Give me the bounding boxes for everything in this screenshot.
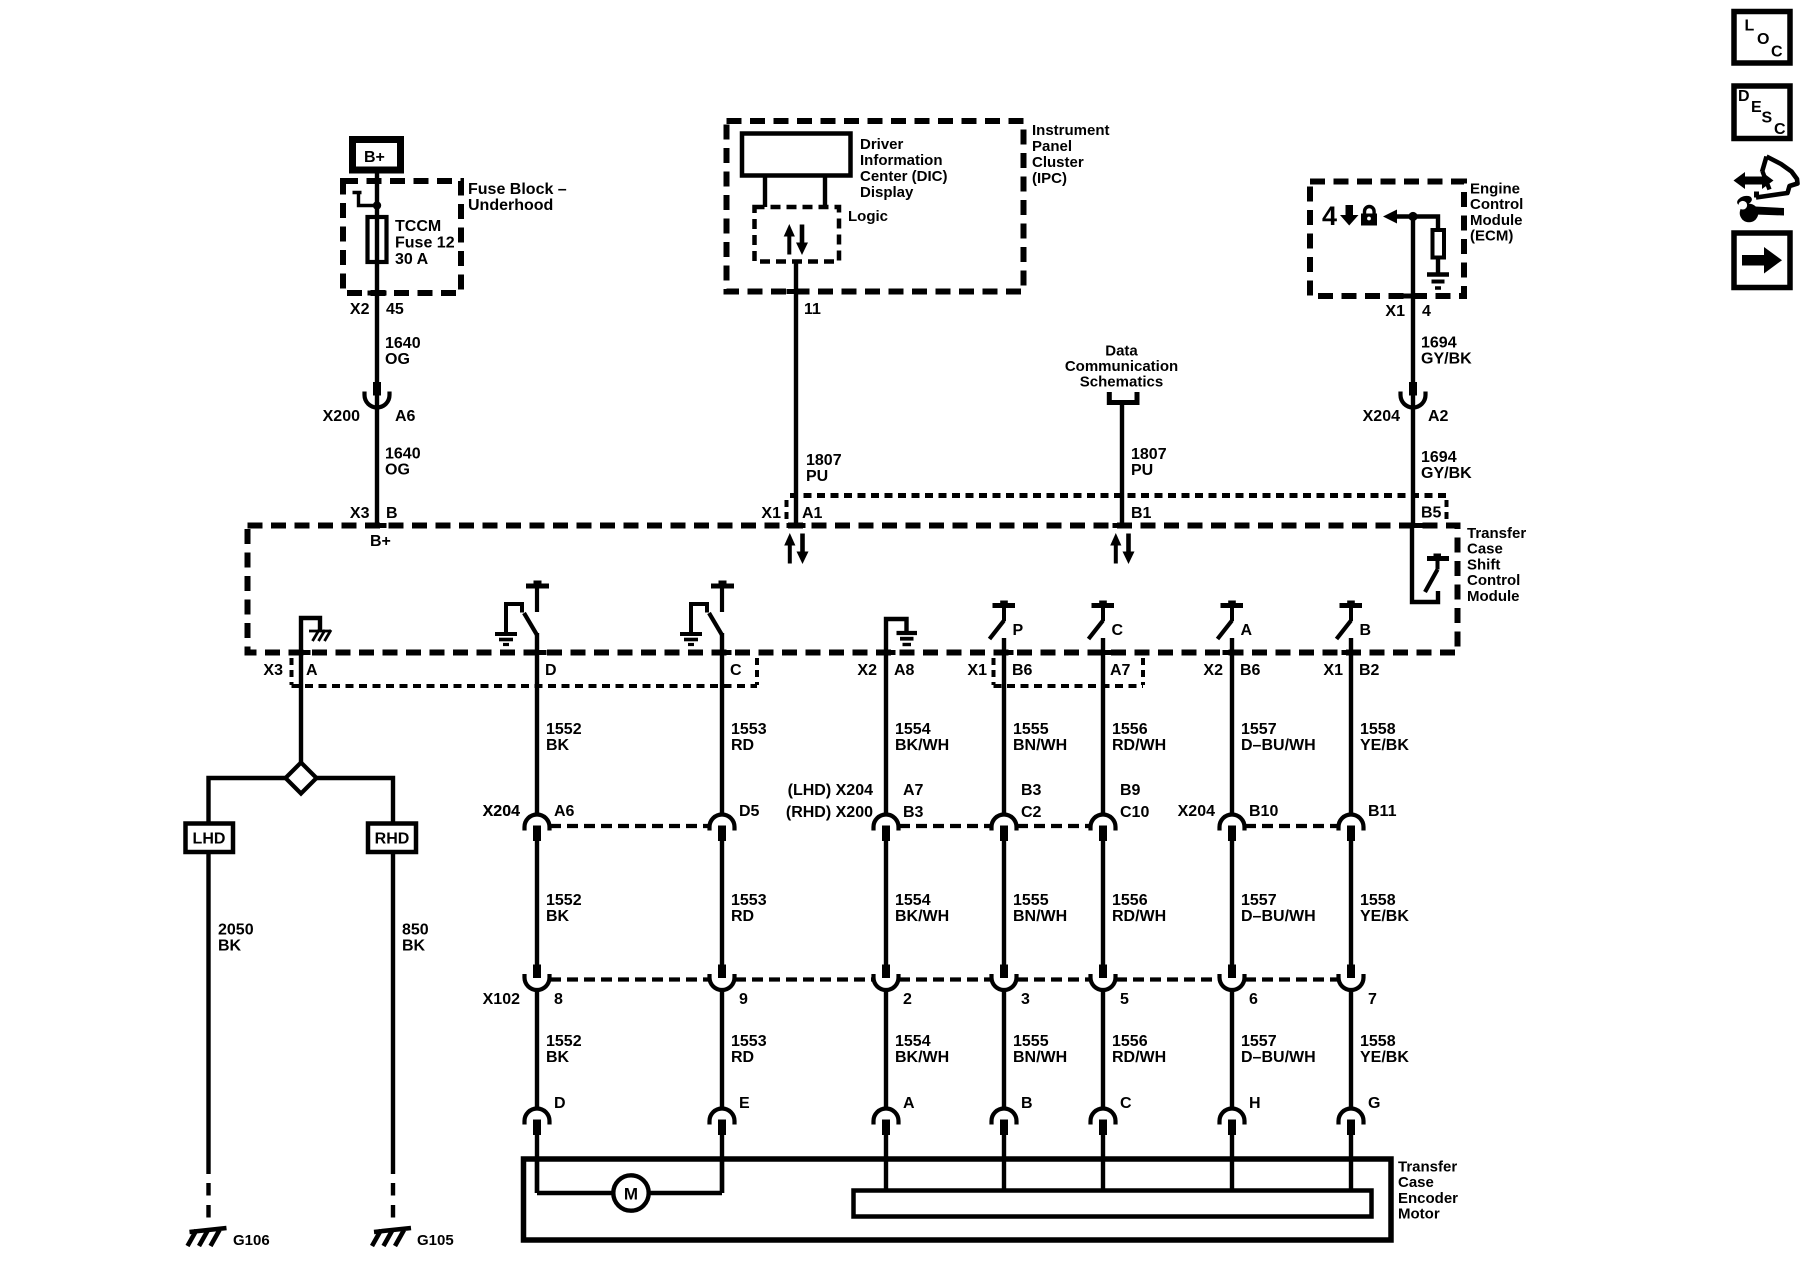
svg-text:B9: B9 <box>1120 782 1141 799</box>
svg-text:A2: A2 <box>1428 408 1449 425</box>
svg-text:X2: X2 <box>857 662 877 679</box>
ground arrow pin A <box>301 618 320 653</box>
wire DIC to logic right leg <box>823 176 827 208</box>
svg-text:A7: A7 <box>903 782 924 799</box>
svg-text:Schematics: Schematics <box>1080 374 1163 391</box>
wire 1553 segment 3 <box>720 990 724 1109</box>
svg-text:O: O <box>1757 31 1769 48</box>
svg-text:B: B <box>1360 622 1372 639</box>
connector row X102 wire 1557 <box>1228 965 1236 979</box>
svg-text:Display: Display <box>860 184 914 201</box>
svg-text:G: G <box>1368 1095 1380 1112</box>
instrument panel cluster IPC box <box>727 121 1024 292</box>
wire DIC to logic left leg <box>763 176 767 208</box>
wire 1554 segment 2 <box>884 841 888 965</box>
svg-text:X204: X204 <box>1363 408 1400 425</box>
svg-text:X2: X2 <box>350 301 370 318</box>
switch driver <box>526 584 549 589</box>
svg-text:4: 4 <box>1322 201 1337 231</box>
connector row X102 wire 1553 <box>718 965 726 979</box>
motor M <box>613 1175 648 1210</box>
svg-text:RD/WH: RD/WH <box>1112 1049 1166 1066</box>
svg-text:1556: 1556 <box>1112 1033 1148 1050</box>
svg-text:Case: Case <box>1398 1174 1434 1191</box>
svg-text:X200: X200 <box>323 408 360 425</box>
svg-text:A: A <box>306 662 318 679</box>
svg-text:RHD: RHD <box>375 831 410 848</box>
node B+ battery feed <box>353 140 401 171</box>
svg-text:D: D <box>554 1095 566 1112</box>
logic up/down arrows <box>784 224 795 237</box>
switch A <box>1221 603 1244 608</box>
wire 1553 segment 4 <box>720 1135 724 1193</box>
svg-text:S: S <box>1762 110 1773 127</box>
svg-text:2: 2 <box>903 991 912 1008</box>
icon wrench <box>1740 204 1759 223</box>
svg-text:X1: X1 <box>1323 662 1343 679</box>
svg-text:B: B <box>1021 1095 1033 1112</box>
connector X200 A6 <box>373 382 381 396</box>
resistor <box>1433 230 1445 258</box>
left arrow to junction <box>1383 210 1397 224</box>
junction dot <box>1408 212 1417 221</box>
wire 1558 segment 3 <box>1349 990 1353 1109</box>
svg-text:C: C <box>1120 1095 1132 1112</box>
connector row X204 wire 1554 <box>874 814 899 830</box>
wire 2050 BK <box>206 852 210 1174</box>
connector row X204 wire 1557 <box>1220 814 1245 830</box>
svg-text:GY/BK: GY/BK <box>1421 465 1472 482</box>
connector row X204 wire 1552 <box>525 814 550 830</box>
wire 1557 segment 3 <box>1230 990 1234 1109</box>
svg-text:B3: B3 <box>1021 782 1042 799</box>
wire 1554 segment 4 <box>884 1135 888 1191</box>
svg-text:Control: Control <box>1470 196 1523 213</box>
svg-text:1807: 1807 <box>806 452 842 469</box>
svg-text:X204: X204 <box>483 803 520 820</box>
fuse TCCM Fuse 12 30A <box>368 217 387 262</box>
svg-text:Motor: Motor <box>1398 1206 1440 1223</box>
svg-text:YE/BK: YE/BK <box>1360 1049 1409 1066</box>
pin ticks bottom edge <box>292 650 311 655</box>
svg-text:1552: 1552 <box>546 721 582 738</box>
svg-text:1694: 1694 <box>1421 335 1457 352</box>
svg-text:850: 850 <box>402 922 429 939</box>
wire 1556 segment 2 <box>1101 841 1105 965</box>
wire 1557 segment 4 <box>1230 1135 1234 1191</box>
connector row X204 wire 1556 <box>1091 814 1116 830</box>
wire B+ to fuse <box>375 173 379 526</box>
svg-text:X1: X1 <box>761 505 781 522</box>
svg-text:X2: X2 <box>1203 662 1223 679</box>
svg-text:X3: X3 <box>350 505 370 522</box>
svg-text:OG: OG <box>385 462 410 479</box>
dotted serial data line <box>790 493 1446 498</box>
fuse clip <box>353 193 378 206</box>
wire 1558 segment 4 <box>1349 1135 1353 1191</box>
wire 1556 segment 4 <box>1101 1135 1105 1191</box>
svg-text:B10: B10 <box>1249 803 1278 820</box>
transfer case shift control module box <box>248 526 1458 653</box>
diamond splice <box>286 763 317 794</box>
svg-text:E: E <box>1751 99 1762 116</box>
wire 1555 segment 1 <box>1002 653 1006 815</box>
ground A8 <box>886 619 907 653</box>
svg-text:BK/WH: BK/WH <box>895 737 949 754</box>
bracket <box>1109 392 1137 403</box>
ground symbol <box>190 1228 227 1232</box>
icon DESC box <box>1734 86 1790 139</box>
svg-text:6: 6 <box>1249 991 1258 1008</box>
LHD box <box>186 824 234 853</box>
svg-text:11: 11 <box>804 301 821 318</box>
svg-text:RD/WH: RD/WH <box>1112 737 1166 754</box>
svg-text:Module: Module <box>1470 212 1523 229</box>
svg-text:BK: BK <box>546 1049 570 1066</box>
pin X2/45 tick <box>368 291 387 296</box>
svg-text:1553: 1553 <box>731 1033 767 1050</box>
switch C <box>1092 603 1115 608</box>
svg-text:D–BU/WH: D–BU/WH <box>1241 908 1316 925</box>
svg-text:E: E <box>739 1095 750 1112</box>
wire to pullup resistor <box>1413 217 1438 231</box>
svg-text:1552: 1552 <box>546 892 582 909</box>
svg-text:1694: 1694 <box>1421 449 1457 466</box>
svg-text:PU: PU <box>806 468 828 485</box>
svg-text:9: 9 <box>739 991 748 1008</box>
switch driver <box>711 584 734 589</box>
svg-text:X1: X1 <box>1385 303 1405 320</box>
svg-text:2050: 2050 <box>218 922 254 939</box>
svg-text:D5: D5 <box>739 803 760 820</box>
svg-text:1557: 1557 <box>1241 1033 1277 1050</box>
wire 1558 segment 2 <box>1349 841 1353 965</box>
svg-text:B5: B5 <box>1421 505 1442 522</box>
svg-text:Control: Control <box>1467 572 1520 589</box>
svg-text:BN/WH: BN/WH <box>1013 1049 1067 1066</box>
svg-text:LHD: LHD <box>193 831 226 848</box>
wire to RHD <box>317 778 394 824</box>
icon LOC box <box>1734 12 1790 64</box>
svg-text:D: D <box>1738 88 1750 105</box>
wire ECM pin 4 <box>1411 217 1415 526</box>
connector row X102 wire 1558 <box>1347 965 1355 979</box>
connector link dashes X102 row <box>550 977 709 981</box>
wire 1552 segment 2 <box>535 841 539 965</box>
connector sub-box X3 <box>292 684 758 688</box>
svg-text:1555: 1555 <box>1013 892 1049 909</box>
svg-text:1557: 1557 <box>1241 721 1277 738</box>
svg-text:1553: 1553 <box>731 721 767 738</box>
svg-text:Transfer: Transfer <box>1467 525 1526 542</box>
switch P <box>993 603 1016 608</box>
wire 1807 PU right <box>1120 405 1124 526</box>
svg-text:3: 3 <box>1021 991 1030 1008</box>
svg-text:Communication: Communication <box>1065 358 1178 375</box>
svg-text:H: H <box>1249 1095 1261 1112</box>
svg-text:1556: 1556 <box>1112 892 1148 909</box>
wire 850 BK <box>391 852 395 1174</box>
svg-text:BN/WH: BN/WH <box>1013 737 1067 754</box>
svg-text:Information: Information <box>860 152 943 169</box>
wire 1556 segment 1 <box>1101 653 1105 815</box>
svg-text:C10: C10 <box>1120 804 1149 821</box>
svg-text:BK/WH: BK/WH <box>895 1049 949 1066</box>
svg-text:Module: Module <box>1467 588 1520 605</box>
wire resistor to ground <box>1436 258 1440 274</box>
svg-text:1807: 1807 <box>1131 446 1167 463</box>
svg-text:1557: 1557 <box>1241 892 1277 909</box>
svg-text:BK: BK <box>402 938 426 955</box>
svg-text:B+: B+ <box>364 149 385 166</box>
wire pin A down <box>299 653 303 764</box>
wire 1553 segment 1 <box>720 653 724 815</box>
svg-text:Cluster: Cluster <box>1032 154 1084 171</box>
connector row X204 wire 1555 <box>992 814 1017 830</box>
svg-text:BK/WH: BK/WH <box>895 908 949 925</box>
serial data arrows A1 <box>784 533 795 546</box>
svg-text:Driver: Driver <box>860 136 904 153</box>
svg-text:BK: BK <box>546 908 570 925</box>
wire 1552 segment 1 <box>535 653 539 815</box>
svg-text:C: C <box>1771 44 1783 61</box>
svg-text:BK: BK <box>218 938 242 955</box>
encoder bar <box>854 1191 1372 1217</box>
svg-text:G106: G106 <box>233 1232 270 1249</box>
svg-text:Transfer: Transfer <box>1398 1159 1457 1176</box>
svg-text:Data: Data <box>1105 343 1138 360</box>
svg-text:(RHD) X200: (RHD) X200 <box>786 804 873 821</box>
B5 switch inside module <box>1412 528 1438 602</box>
wire 1552 segment 3 <box>535 990 539 1109</box>
svg-text:B6: B6 <box>1012 662 1033 679</box>
svg-text:TCCM: TCCM <box>395 218 441 235</box>
ground symbol <box>374 1228 411 1232</box>
svg-text:A6: A6 <box>395 408 416 425</box>
svg-text:RD/WH: RD/WH <box>1112 908 1166 925</box>
svg-text:Fuse Block –: Fuse Block – <box>468 181 567 198</box>
svg-text:A: A <box>1241 622 1253 639</box>
svg-text:D: D <box>545 662 557 679</box>
svg-text:Logic: Logic <box>848 208 888 225</box>
RHD box <box>368 824 416 853</box>
icon data link connector <box>1734 172 1774 189</box>
svg-text:(ECM): (ECM) <box>1470 228 1513 245</box>
svg-text:C: C <box>1112 622 1124 639</box>
wire 1554 segment 1 <box>884 653 888 815</box>
connector row X204 wire 1558 <box>1339 814 1364 830</box>
svg-text:1555: 1555 <box>1013 1033 1049 1050</box>
icon next arrow box <box>1734 233 1790 288</box>
svg-text:G105: G105 <box>417 1232 454 1249</box>
transfer case encoder motor box <box>524 1159 1392 1240</box>
wire 1555 segment 2 <box>1002 841 1006 965</box>
svg-text:1556: 1556 <box>1112 721 1148 738</box>
wire 1558 segment 1 <box>1349 653 1353 815</box>
svg-text:M: M <box>624 1185 638 1204</box>
svg-text:L: L <box>1745 18 1755 35</box>
svg-text:A6: A6 <box>554 803 575 820</box>
svg-text:Underhood: Underhood <box>468 197 553 214</box>
svg-text:A7: A7 <box>1110 662 1131 679</box>
connector link dashes X204 row <box>550 824 709 828</box>
svg-text:4: 4 <box>1422 303 1431 320</box>
svg-text:30 A: 30 A <box>395 251 429 268</box>
logic box <box>755 207 840 262</box>
svg-text:X102: X102 <box>483 991 520 1008</box>
svg-text:X204: X204 <box>1178 803 1215 820</box>
svg-text:Case: Case <box>1467 541 1503 558</box>
svg-text:A: A <box>903 1095 915 1112</box>
svg-text:Instrument: Instrument <box>1032 122 1110 139</box>
wire 1555 segment 3 <box>1002 990 1006 1109</box>
connector X204 A2 <box>1409 382 1417 396</box>
connector row X102 wire 1552 <box>533 965 541 979</box>
ground in ECM <box>1427 272 1449 276</box>
fuse block underhood box <box>343 181 461 293</box>
svg-text:(LHD) X204: (LHD) X204 <box>788 782 873 799</box>
svg-text:GY/BK: GY/BK <box>1421 351 1472 368</box>
wire 1555 segment 4 <box>1002 1135 1006 1191</box>
svg-text:1558: 1558 <box>1360 1033 1396 1050</box>
svg-text:B+: B+ <box>370 533 391 550</box>
motor wire D-E <box>535 1159 539 1193</box>
svg-text:1555: 1555 <box>1013 721 1049 738</box>
svg-text:B11: B11 <box>1368 803 1397 820</box>
svg-text:1552: 1552 <box>546 1033 582 1050</box>
svg-text:Shift: Shift <box>1467 556 1500 573</box>
svg-text:D–BU/WH: D–BU/WH <box>1241 1049 1316 1066</box>
svg-text:45: 45 <box>386 301 404 318</box>
wire 1552 segment 4 <box>535 1135 539 1193</box>
svg-text:YE/BK: YE/BK <box>1360 908 1409 925</box>
connector sub-box X1 <box>994 684 1144 688</box>
connector row X204 wire 1553 <box>710 814 735 830</box>
switch B <box>1340 603 1363 608</box>
svg-text:1640: 1640 <box>385 446 421 463</box>
svg-text:X3: X3 <box>263 662 283 679</box>
svg-text:B3: B3 <box>903 804 924 821</box>
svg-text:RD: RD <box>731 1049 754 1066</box>
connector row X102 wire 1555 <box>1000 965 1008 979</box>
svg-text:(IPC): (IPC) <box>1032 170 1067 187</box>
svg-text:P: P <box>1013 622 1024 639</box>
connector row X102 wire 1554 <box>882 965 890 979</box>
svg-text:1558: 1558 <box>1360 721 1396 738</box>
svg-text:BN/WH: BN/WH <box>1013 908 1067 925</box>
svg-text:C2: C2 <box>1021 804 1042 821</box>
wire 1557 segment 1 <box>1230 653 1234 815</box>
svg-text:X1: X1 <box>967 662 987 679</box>
svg-text:8: 8 <box>554 991 563 1008</box>
wire 1553 segment 2 <box>720 841 724 965</box>
serial data arrows B1 <box>1110 533 1121 546</box>
svg-text:D–BU/WH: D–BU/WH <box>1241 737 1316 754</box>
connector row X102 wire 1556 <box>1099 965 1107 979</box>
svg-text:B: B <box>386 505 398 522</box>
svg-text:YE/BK: YE/BK <box>1360 737 1409 754</box>
wire 1556 segment 3 <box>1101 990 1105 1109</box>
wire 1557 segment 2 <box>1230 841 1234 965</box>
svg-text:C: C <box>730 662 742 679</box>
svg-text:BK: BK <box>546 737 570 754</box>
svg-text:1553: 1553 <box>731 892 767 909</box>
wire to LHD <box>209 778 286 824</box>
svg-text:5: 5 <box>1120 991 1129 1008</box>
wire 1554 segment 3 <box>884 990 888 1109</box>
svg-text:C: C <box>1774 121 1786 138</box>
svg-text:Engine: Engine <box>1470 181 1520 198</box>
padlock <box>1361 214 1377 226</box>
svg-text:RD: RD <box>731 908 754 925</box>
engine control module ECM box <box>1310 182 1464 297</box>
svg-text:Panel: Panel <box>1032 138 1072 155</box>
svg-text:PU: PU <box>1131 462 1153 479</box>
svg-text:RD: RD <box>731 737 754 754</box>
svg-text:B2: B2 <box>1359 662 1380 679</box>
dashed tail G105 <box>391 1183 395 1221</box>
svg-text:1554: 1554 <box>895 892 931 909</box>
svg-text:B6: B6 <box>1240 662 1261 679</box>
svg-text:7: 7 <box>1368 991 1377 1008</box>
svg-text:Center (DIC): Center (DIC) <box>860 168 948 185</box>
svg-text:1554: 1554 <box>895 1033 931 1050</box>
svg-text:A8: A8 <box>894 662 915 679</box>
svg-text:Fuse 12: Fuse 12 <box>395 235 455 252</box>
svg-text:1640: 1640 <box>385 335 421 352</box>
dashed tail G106 <box>206 1183 210 1221</box>
svg-text:A1: A1 <box>802 505 823 522</box>
wire 11 from logic <box>794 262 798 526</box>
svg-text:B1: B1 <box>1131 505 1152 522</box>
svg-text:Encoder: Encoder <box>1398 1190 1458 1207</box>
svg-text:1558: 1558 <box>1360 892 1396 909</box>
svg-text:OG: OG <box>385 351 410 368</box>
DIC display <box>742 134 851 176</box>
svg-text:1554: 1554 <box>895 721 931 738</box>
